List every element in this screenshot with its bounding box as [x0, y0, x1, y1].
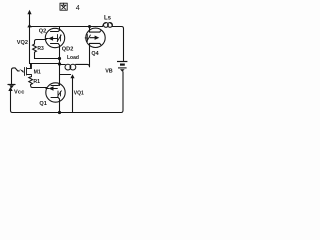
- svg-text:Ls: Ls: [104, 16, 112, 22]
- arrow VQ1: [60, 74, 71, 76]
- resistor R3: [33, 40, 47, 59]
- ground bar: [8, 84, 15, 86]
- node dot: [58, 111, 61, 114]
- inductor Load: [60, 64, 66, 66]
- wire right vertical upper: [123, 29, 125, 61]
- arrow Vcc: [11, 91, 13, 113]
- svg-text:M1: M1: [34, 70, 41, 76]
- node dot: [58, 62, 61, 65]
- svg-text:QD2: QD2: [62, 46, 74, 52]
- svg-text:VQ1: VQ1: [74, 90, 84, 96]
- wire node link: [30, 63, 60, 65]
- svg-text:VQ2: VQ2: [17, 40, 28, 46]
- svg-text:VB: VB: [105, 68, 113, 74]
- wire left bracket: [12, 68, 20, 84]
- wire top rail: [30, 27, 124, 29]
- battery VB: [117, 62, 127, 68]
- wire bottom rail: [13, 112, 122, 114]
- arrow VQ2: [29, 14, 31, 64]
- svg-text:R3: R3: [37, 46, 44, 52]
- svg-text:Q4: Q4: [91, 51, 98, 57]
- transistor M1: [19, 69, 23, 73]
- svg-text:Vcc: Vcc: [14, 89, 25, 95]
- inductor Ls: [103, 23, 106, 27]
- caption glyph TU (figure label): [60, 3, 67, 10]
- wire mid column: [59, 27, 61, 113]
- node dot: [58, 57, 61, 60]
- node dot: [88, 25, 91, 28]
- wire Q4 source: [89, 47, 91, 66]
- svg-text:Load: Load: [67, 55, 79, 61]
- svg-text:Q2: Q2: [39, 28, 46, 34]
- transistor Q2: [45, 28, 64, 47]
- wire right vertical lower: [121, 72, 123, 113]
- svg-text:Q1: Q1: [39, 101, 46, 107]
- wire R3 bottom: [35, 58, 60, 60]
- wire M1 drain: [30, 64, 32, 68]
- svg-text:R1: R1: [33, 79, 40, 85]
- resistor R1: [29, 77, 47, 88]
- svg-text:4: 4: [76, 3, 80, 12]
- transistor Q4: [85, 27, 105, 48]
- transistor Q1: [46, 83, 65, 102]
